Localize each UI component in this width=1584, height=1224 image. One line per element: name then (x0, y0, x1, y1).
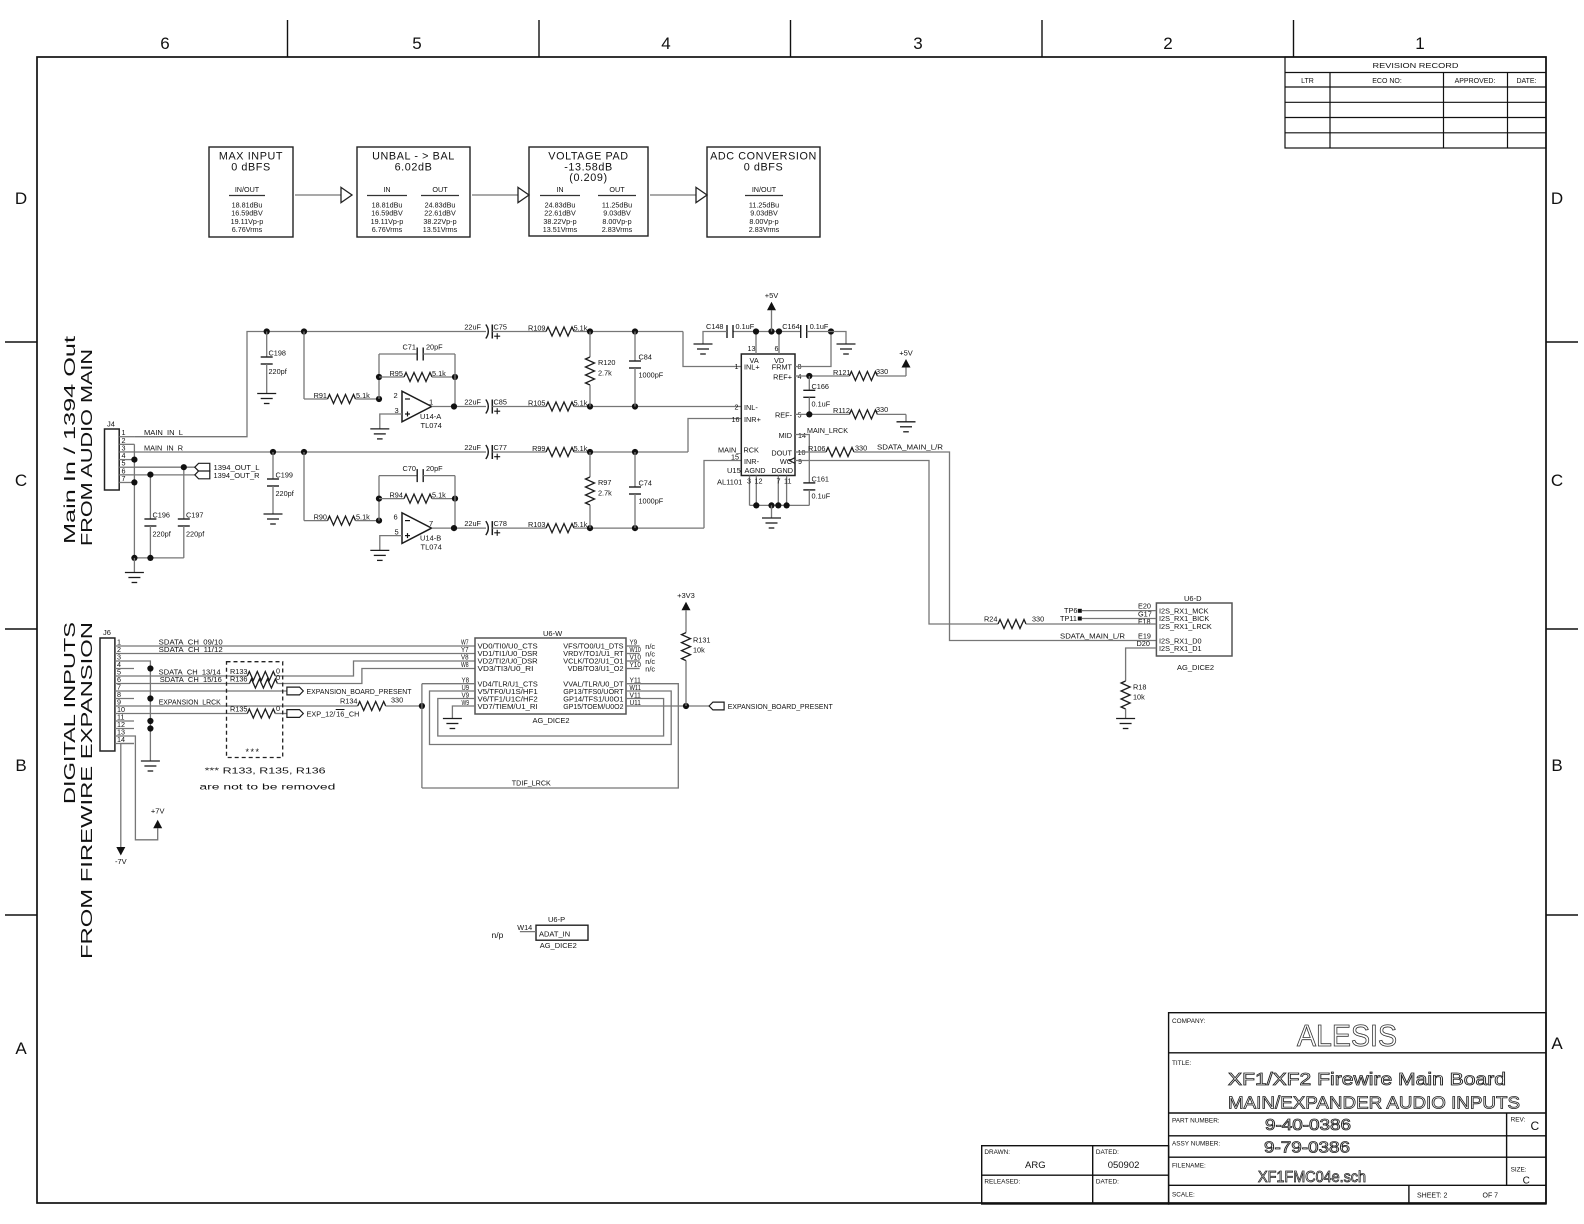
junction ground rail pin11 (784, 502, 790, 508)
wire R136 to U6-W W8 (277, 669, 475, 684)
svg-text:MAIN_LRCK: MAIN_LRCK (807, 426, 848, 435)
resistor R133 0 ohm (247, 672, 275, 681)
ground C199 (264, 514, 283, 524)
power -7V (116, 847, 125, 856)
svg-text:are not to be removed: are not to be removed (199, 781, 335, 791)
svg-text:16: 16 (336, 710, 344, 719)
connector J4 (105, 429, 120, 490)
wire R99 to C74 node (574, 451, 688, 453)
svg-text:R136: R136 (230, 675, 247, 684)
wire SDATA_CH_11/12 J6 pin2 to U6-W Y7 (134, 653, 475, 655)
wire TP11 to G17 (1082, 618, 1157, 620)
junction R94 right (452, 496, 458, 502)
svg-text:IN/OUT: IN/OUT (752, 185, 777, 194)
wire C75 to R109 (492, 331, 546, 333)
junction R95 right (452, 374, 458, 380)
svg-text:U15: U15 (727, 466, 741, 475)
svg-text:DOUT: DOUT (771, 448, 792, 457)
junction ground rail J4 (131, 555, 137, 561)
resistor R136 0 ohm (249, 679, 277, 688)
svg-text:2.83Vrms: 2.83Vrms (749, 225, 780, 234)
junction VA rail (753, 328, 759, 334)
svg-text:AL1101: AL1101 (717, 478, 742, 487)
svg-text:FROM AUDIO MAIN: FROM AUDIO MAIN (79, 349, 96, 546)
wire R18 to ground (1125, 709, 1127, 719)
svg-text:ECO NO:: ECO NO: (1372, 78, 1402, 85)
ground C148 (694, 344, 713, 354)
wire U15 FRMT to +5V rail (795, 332, 831, 367)
svg-text:C197: C197 (186, 511, 203, 520)
svg-text:0.1uF: 0.1uF (812, 400, 831, 409)
svg-text:9-79-0386: 9-79-0386 (1264, 1140, 1350, 1157)
wire J6 pin5 to R133 (134, 675, 247, 677)
svg-text:0 dBFS: 0 dBFS (231, 162, 271, 174)
resistor R135 0 ohm (247, 709, 275, 718)
wire R121 to +5V (877, 375, 906, 377)
wire J6 pin6 to R136 (134, 683, 249, 685)
ground J6 bus (141, 761, 160, 771)
wire U15 DOUT to R106 (795, 451, 826, 453)
svg-text:REF-: REF- (775, 411, 793, 420)
capacitor C161 0.1uF (803, 483, 815, 490)
svg-text:_CH: _CH (344, 710, 360, 719)
svg-text:C: C (1523, 1176, 1530, 1187)
svg-text:REVISION RECORD: REVISION RECORD (1373, 63, 1459, 70)
wire J6 pin14 to -7V (121, 744, 134, 848)
svg-text:R120: R120 (598, 358, 615, 367)
revision record table (1285, 57, 1546, 148)
junction R94 left (376, 496, 382, 502)
svg-text:TP11: TP11 (1060, 614, 1077, 623)
svg-text:4: 4 (661, 34, 670, 53)
svg-text:J6: J6 (103, 628, 111, 637)
svg-text:EXPANSION_LRCK: EXPANSION_LRCK (159, 697, 221, 706)
wire R105 to U15 INL- (574, 406, 741, 408)
wire J4 ground stem (133, 558, 135, 573)
junction J6 pin4 ground (147, 665, 153, 671)
svg-text:R94: R94 (390, 490, 403, 499)
svg-text:SDATA_MAIN_L/R: SDATA_MAIN_L/R (1060, 631, 1125, 640)
svg-text:n/c: n/c (645, 665, 655, 674)
svg-text:TDIF_LRCK: TDIF_LRCK (512, 778, 551, 787)
svg-text:9: 9 (798, 457, 802, 466)
svg-text:10k: 10k (693, 646, 705, 655)
junction R90 branch (301, 449, 307, 455)
ground U15 (762, 518, 781, 528)
tag EXP_12/16_CH (287, 710, 303, 718)
junction R97 bottom (587, 525, 593, 531)
svg-text:SCALE:: SCALE: (1172, 1192, 1195, 1199)
junction J6 pin12 ground (147, 725, 153, 731)
svg-text:+7V: +7V (151, 807, 165, 816)
svg-text:2.7k: 2.7k (598, 489, 612, 498)
ground R18 (1116, 719, 1135, 729)
svg-text:C78: C78 (494, 519, 507, 528)
wire R103 to U15 INR- jog (574, 527, 704, 529)
svg-text:R109: R109 (528, 323, 545, 332)
svg-text:C148: C148 (706, 322, 723, 331)
svg-text:AG_DICE2: AG_DICE2 (1177, 663, 1214, 672)
junction REF- C166 (806, 411, 812, 417)
junction op-amp A output (451, 403, 457, 409)
wire U15 REF+ to R121 (795, 375, 849, 377)
svg-text:SIZE:: SIZE: (1511, 1167, 1527, 1174)
svg-text:ASSY NUMBER:: ASSY NUMBER: (1172, 1141, 1220, 1148)
svg-text:XF1/XF2 Firewire Main Board: XF1/XF2 Firewire Main Board (1228, 1069, 1506, 1089)
svg-text:14: 14 (117, 735, 125, 744)
capacitor C198 (266, 332, 268, 358)
wire feedback left column B (378, 476, 380, 521)
svg-text:R134: R134 (340, 697, 357, 706)
capacitor C164 0.1uF (801, 325, 807, 338)
junction C84 top (632, 328, 638, 334)
tag EXPANSION_BOARD_PRESENT right (709, 702, 724, 710)
op-amp U14-A TL074 (402, 391, 432, 422)
svg-text:C: C (1531, 1119, 1540, 1133)
junction C199 top (270, 449, 276, 455)
svg-text:C70: C70 (403, 464, 416, 473)
svg-text:2.83Vrms: 2.83Vrms (602, 225, 633, 234)
svg-text:0.1uF: 0.1uF (812, 492, 831, 501)
svg-text:6: 6 (160, 34, 169, 53)
wire top rail MAIN_IN_L channel A (267, 331, 486, 333)
svg-text:AGND: AGND (745, 466, 766, 475)
svg-text:R90: R90 (314, 513, 327, 522)
power +5V at R121 (902, 359, 911, 368)
svg-text:R131: R131 (693, 636, 710, 645)
capacitor C196 (149, 475, 151, 519)
svg-text:C196: C196 (153, 511, 170, 520)
power +7V (153, 820, 162, 829)
junction ground rail C196 (147, 555, 153, 561)
junction EXPANSION_LRCK (419, 703, 425, 709)
svg-text:U14-A: U14-A (420, 412, 441, 421)
svg-text:-7V: -7V (115, 857, 127, 866)
resistor R112 330 (849, 410, 877, 419)
top zone tick marks (288, 20, 1294, 57)
wire +5V rail above U15 (733, 331, 801, 333)
svg-text:I2S_RX1_LRCK: I2S_RX1_LRCK (1159, 622, 1212, 631)
capacitor C74 1000pF (634, 452, 636, 487)
resistor R131 10k (682, 633, 691, 661)
junction op-amp B output (451, 525, 457, 531)
wire EXPANSION_LRCK to Y8 and TDIF loop (422, 683, 475, 685)
capacitor C75 22uF (486, 325, 489, 339)
wire op-amp B non-inverting to ground (380, 536, 402, 551)
tag EXPANSION_BOARD_PRESENT left (287, 687, 303, 695)
svg-text:15: 15 (731, 452, 739, 461)
svg-text:INR+: INR+ (744, 415, 761, 424)
svg-text:U14-B: U14-B (420, 534, 441, 543)
junction +5V rail (768, 328, 774, 334)
svg-text:GP15/TOEM/U0O2: GP15/TOEM/U0O2 (563, 702, 623, 711)
svg-text:SDATA_CH_11/12: SDATA_CH_11/12 (159, 645, 223, 654)
svg-text:5.1k: 5.1k (356, 391, 370, 400)
junction C198 top (264, 328, 270, 334)
junction R120 bottom (587, 403, 593, 409)
capacitor C70 (379, 475, 417, 477)
svg-text:050902: 050902 (1108, 1160, 1140, 1171)
svg-text:0 dBFS: 0 dBFS (744, 162, 784, 174)
svg-text:330: 330 (855, 443, 867, 452)
svg-text:13: 13 (748, 344, 756, 353)
svg-text:I2S_RX1_D1: I2S_RX1_D1 (1159, 644, 1202, 653)
U15 pin 12 stub (755, 476, 757, 506)
svg-text:DIGITAL INPUTS: DIGITAL INPUTS (62, 622, 79, 804)
svg-text:U6-W: U6-W (543, 629, 563, 638)
svg-text:APPROVED:: APPROVED: (1455, 78, 1496, 85)
block UNBAL -> BAL (357, 147, 470, 237)
svg-text:330: 330 (391, 696, 403, 705)
resistor R18 10k (1121, 681, 1130, 709)
ground C198 (257, 394, 276, 404)
svg-text:ALESIS: ALESIS (1297, 1018, 1397, 1053)
junction REF+ C166 (806, 373, 812, 379)
svg-text:SHEET: 2: SHEET: 2 (1417, 1193, 1447, 1200)
svg-text:OF 7: OF 7 (1483, 1193, 1499, 1200)
svg-text:MAIN_IN_L: MAIN_IN_L (144, 428, 183, 437)
svg-text:R103: R103 (528, 520, 545, 529)
wire TDIF_LRCK bottom (422, 684, 678, 788)
wire U15 MID to C161 (795, 435, 809, 483)
svg-text:VDB/TO3/U1_O2: VDB/TO3/U1_O2 (568, 664, 624, 673)
svg-text:FRMT: FRMT (772, 363, 793, 372)
svg-text:14: 14 (798, 431, 806, 440)
svg-text:16: 16 (732, 415, 740, 424)
junction R120 top (587, 328, 593, 334)
resistor R120 2.7k (589, 332, 591, 358)
svg-text:SDATA_CH_15/16: SDATA_CH_15/16 (160, 675, 222, 684)
junction C197 top (181, 464, 187, 470)
svg-text:6: 6 (394, 513, 398, 522)
svg-text:A: A (1551, 1034, 1563, 1053)
U15 WC clock wedge (789, 458, 795, 464)
svg-text:+5V: +5V (765, 291, 779, 300)
U15 pin 13 VA stub (755, 332, 757, 355)
wire C77 to R99 (492, 451, 546, 453)
svg-text:0: 0 (276, 704, 280, 713)
svg-text:SDATA_MAIN_L/R: SDATA_MAIN_L/R (877, 443, 943, 452)
svg-text:XF1FMC04e.sch: XF1FMC04e.sch (1258, 1169, 1366, 1186)
connector J6 pin stubs (115, 646, 134, 744)
svg-text:D: D (15, 189, 27, 208)
wire J6 ground bus (134, 661, 150, 761)
svg-text:C: C (15, 471, 27, 490)
dashed box around R133 R135 R136 (227, 662, 283, 758)
svg-text:U6-P: U6-P (548, 915, 565, 924)
ground op-amp A (370, 429, 389, 439)
wire U15 REF- to R112 (795, 413, 849, 415)
svg-text:330: 330 (876, 405, 888, 414)
svg-text:DATE:: DATE: (1516, 78, 1536, 85)
junction J6 pin8 ground (147, 695, 153, 701)
resistor R134 330 (358, 702, 386, 711)
wire loop U9 to W11 (430, 691, 672, 745)
resistor R109 (546, 327, 574, 336)
connector J6 (100, 638, 115, 751)
svg-text:C166: C166 (812, 382, 829, 391)
svg-text:3: 3 (747, 477, 751, 486)
svg-text:6.76Vrms: 6.76Vrms (232, 225, 263, 234)
svg-text:R112: R112 (833, 406, 850, 415)
capacitor C197 (183, 467, 185, 519)
wire C148 to ground (703, 332, 727, 345)
connector J4 pin stubs (119, 437, 134, 483)
wire U15 ground stem (771, 505, 773, 518)
wire ground rail below C196 C197 (134, 557, 183, 559)
capacitor C78 22uF (486, 521, 489, 535)
svg-text:R91: R91 (314, 391, 327, 400)
resistor R106 330 (826, 448, 854, 457)
svg-text:INL+: INL+ (744, 363, 760, 372)
svg-text:ARG: ARG (1025, 1160, 1046, 1171)
connector J6 pin numbers (117, 638, 125, 745)
wire C164 to ground (807, 332, 846, 345)
wire J6 pin7 to tag (134, 690, 287, 692)
svg-text:0.1uF: 0.1uF (736, 322, 755, 331)
U15 pin 3 stub (749, 476, 751, 506)
svg-text:20pF: 20pF (426, 464, 443, 473)
junction ground rail stem (768, 502, 774, 508)
wire R135 to tag (275, 713, 287, 715)
wire J6 pin9 to R134 (134, 705, 358, 707)
svg-text:EXPANSION_BOARD_PRESENT: EXPANSION_BOARD_PRESENT (728, 702, 834, 711)
wire MAIN_LRCK WC to R24 (795, 461, 998, 625)
svg-text:R135: R135 (230, 705, 247, 714)
svg-text:220pf: 220pf (153, 530, 172, 539)
wire J6 pin10 to R135 (134, 713, 247, 715)
svg-text:220pf: 220pf (186, 530, 205, 539)
svg-text:INL-: INL- (744, 403, 758, 412)
svg-text:C198: C198 (269, 349, 286, 358)
U15 pin 6 VD stub (778, 332, 780, 355)
junction ground rail pin7 (775, 502, 781, 508)
svg-text:***: *** (246, 747, 261, 757)
IC U6-W AG_DICE2 (475, 638, 626, 714)
svg-text:C71: C71 (403, 343, 416, 352)
svg-text:PART NUMBER:: PART NUMBER: (1172, 1118, 1220, 1125)
wire MAIN_IN_L from J4 pin 1 (134, 332, 266, 437)
wire C78 to R103 (492, 527, 546, 529)
ground J4 (125, 573, 144, 583)
svg-text:IN/OUT: IN/OUT (235, 185, 260, 194)
ground C164 (837, 344, 856, 354)
wire R24 to F18 (1026, 623, 1156, 625)
wire J4 ground bus pins 2-4-7 (133, 444, 135, 558)
wire TP6 to E20 (1082, 610, 1157, 612)
junction op-amp B inverting node (376, 518, 382, 524)
svg-text:VD3/TI3/U0_RI: VD3/TI3/U0_RI (478, 664, 534, 673)
IC U6-P ADAT_IN (536, 925, 588, 940)
op-amp U14-B TL074 (402, 513, 432, 544)
svg-text:220pf: 220pf (269, 367, 288, 376)
svg-text:330: 330 (1032, 614, 1044, 623)
svg-text:9-40-0386: 9-40-0386 (1265, 1117, 1351, 1134)
wire op-amp B output to U15 INR- (704, 461, 741, 529)
drawn released table (982, 1146, 1169, 1204)
block ADC CONVERSION (707, 147, 820, 237)
svg-text:R121: R121 (833, 368, 850, 377)
wire J6 pin13 to +7V (134, 736, 158, 840)
wire feedback right column A (454, 354, 456, 407)
svg-text:C75: C75 (494, 322, 507, 331)
svg-text:J4: J4 (107, 420, 115, 429)
svg-text:DATED:: DATED: (1096, 1179, 1119, 1186)
svg-text:13.51Vrms: 13.51Vrms (423, 225, 458, 234)
svg-text:LTR: LTR (1301, 78, 1314, 85)
svg-text:IN: IN (383, 185, 390, 194)
svg-text:2.7k: 2.7k (598, 369, 612, 378)
svg-text:C199: C199 (276, 471, 293, 480)
svg-text:COMPANY:: COMPANY: (1172, 1018, 1205, 1025)
resistor R99 (546, 448, 574, 457)
svg-text:REV:: REV: (1511, 1117, 1526, 1124)
U15 pin 11 stub (786, 476, 788, 506)
junction op-amp A inverting node (376, 396, 382, 402)
svg-text:MAIN/EXPANDER AUDIO INPUTS: MAIN/EXPANDER AUDIO INPUTS (1228, 1093, 1520, 1113)
svg-text:22uF: 22uF (464, 397, 481, 406)
svg-text:C77: C77 (494, 443, 507, 452)
title block (1169, 1013, 1546, 1204)
svg-text:1394_OUT_R: 1394_OUT_R (214, 471, 260, 480)
ground op-amp B (370, 550, 389, 560)
svg-text:REF+: REF+ (773, 372, 792, 381)
column number labels (160, 34, 1424, 53)
junction FRMT rail (828, 328, 834, 334)
wire R131 to junction (685, 661, 687, 706)
svg-text:TL074: TL074 (421, 421, 442, 430)
wire W9 to ground (452, 706, 475, 719)
resistor R105 (546, 402, 574, 411)
svg-text:TITLE:: TITLE: (1172, 1060, 1191, 1067)
svg-text:22uF: 22uF (464, 443, 481, 452)
junction R97 top (587, 449, 593, 455)
svg-text:5.1k: 5.1k (356, 513, 370, 522)
wire loop V9 to V11 (438, 699, 664, 737)
junction R95 left (376, 374, 382, 380)
svg-text:R18: R18 (1133, 683, 1146, 692)
wire SDATA_CH_09/10 J6 pin1 to U6-W W7 (134, 645, 475, 647)
svg-text:6.76Vrms: 6.76Vrms (372, 225, 403, 234)
wire C85 to R105 (492, 406, 546, 408)
right zone tick marks (1546, 342, 1578, 915)
flow arrow 2 (472, 187, 529, 202)
junction ground rail pin12 (753, 502, 759, 508)
svg-text:A: A (15, 1039, 27, 1058)
svg-text:*** R133, R135, R136: *** R133, R135, R136 (205, 766, 326, 776)
svg-text:2: 2 (735, 403, 739, 412)
svg-text:1: 1 (429, 398, 433, 407)
svg-text:C161: C161 (812, 475, 829, 484)
svg-text:OUT: OUT (432, 185, 448, 194)
svg-text:Main In / 1394 Out: Main In / 1394 Out (62, 335, 79, 544)
svg-text:10k: 10k (1133, 693, 1145, 702)
svg-text:330: 330 (876, 367, 888, 376)
U6-P pin W14 stub (520, 931, 536, 933)
svg-text:11: 11 (784, 477, 791, 486)
svg-text:OUT: OUT (609, 185, 625, 194)
wire feedback left column A (378, 354, 380, 399)
wire C74 node to U15 INR+ (688, 419, 741, 453)
wire op-amp A non-inverting to ground (380, 414, 402, 429)
svg-text:2: 2 (1163, 34, 1172, 53)
resistor R91 (304, 398, 328, 400)
svg-text:DRAWN:: DRAWN: (984, 1149, 1010, 1156)
resistor R90 (304, 520, 328, 522)
left row letter labels (15, 189, 27, 1058)
svg-text:C: C (1551, 471, 1563, 490)
capacitor C77 22uF (486, 445, 489, 459)
